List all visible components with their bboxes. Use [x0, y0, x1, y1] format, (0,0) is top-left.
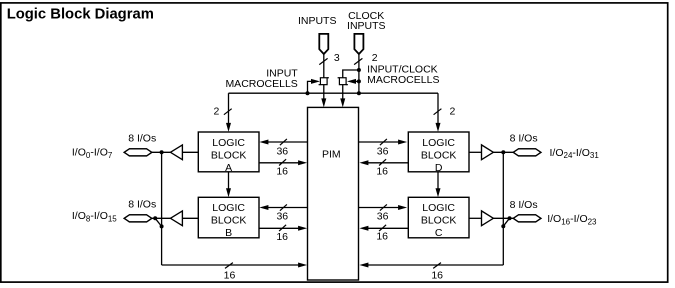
wire hexagon B to buffer: [151, 217, 170, 219]
buffer triangle A: [170, 145, 182, 160]
wire 2-bus into logic block A: [226, 93, 231, 132]
bus slash 16 A: [279, 159, 286, 165]
svg-text:2: 2: [450, 105, 456, 117]
svg-text:INPUTS: INPUTS: [347, 20, 386, 32]
wire right feedback vertical: [502, 152, 504, 265]
wire feedback bus horizontal: [229, 92, 439, 94]
wire clock pin down: [358, 54, 360, 94]
bus slash 36 B: [280, 204, 287, 210]
bus slash 16 bottom left: [225, 263, 233, 269]
node clock to feedback bus junction: [357, 91, 361, 95]
svg-text:B: B: [225, 227, 232, 239]
svg-text:PIM: PIM: [322, 149, 341, 161]
svg-text:8 I/Os: 8 I/Os: [128, 133, 156, 145]
wire 36-bus PIM to block D: [359, 140, 408, 145]
wire input macrocell to PIM: [321, 85, 326, 108]
bus slash 36 D: [380, 139, 387, 145]
node feedback C junction: [508, 216, 512, 220]
svg-text:BLOCK: BLOCK: [421, 149, 457, 161]
bus slash 16 C: [379, 225, 386, 231]
svg-text:8 I/Os: 8 I/Os: [510, 132, 538, 144]
buffer triangle C: [482, 211, 494, 226]
wire 16-bus block A to PIM: [259, 160, 307, 165]
node feedback D junction: [501, 150, 505, 154]
svg-text:16: 16: [431, 270, 443, 282]
wire 16-bus block C to PIM: [359, 226, 408, 231]
wire logic block A to B: [226, 172, 231, 197]
svg-text:36: 36: [377, 211, 389, 223]
bus slash 36 C: [380, 204, 387, 210]
wire 16-bus block B to PIM: [259, 226, 307, 231]
PIM box: [308, 107, 359, 280]
svg-text:8 I/Os: 8 I/Os: [510, 199, 538, 211]
io pin hexagon C: [513, 215, 541, 222]
svg-text:INPUTS: INPUTS: [298, 15, 337, 27]
label INPUT/CLOCK MACROCELLS: [367, 64, 439, 86]
wire left feedback jog diagonal: [155, 218, 161, 226]
bus slash 16 bottom right: [433, 263, 441, 269]
svg-text:16: 16: [376, 166, 388, 178]
label INPUT MACROCELLS: [225, 67, 298, 90]
wire input pin to input macrocell: [323, 54, 325, 78]
logic block B: [198, 197, 259, 239]
svg-text:16: 16: [276, 166, 288, 178]
io pin hexagon D: [513, 149, 541, 156]
svg-text:LOGIC: LOGIC: [212, 202, 245, 214]
node feedback A junction: [160, 150, 164, 154]
bus slash 2 right: [434, 109, 442, 115]
logic block D: [408, 132, 469, 174]
svg-text:D: D: [435, 162, 443, 174]
svg-text:MACROCELLS: MACROCELLS: [367, 74, 439, 86]
wire 36-bus PIM to block B: [259, 205, 307, 210]
wire 36-bus PIM to block C: [359, 205, 408, 210]
clock input pin symbol: [354, 34, 363, 54]
wire hexagon A to buffer: [151, 151, 170, 153]
logic block C: [408, 197, 469, 239]
svg-text:LOGIC: LOGIC: [422, 202, 455, 214]
bus slash 16 D: [379, 159, 386, 165]
bus slash 2 clock: [354, 58, 362, 64]
wire logic block D to C: [436, 172, 441, 197]
wire left feedback vertical: [161, 152, 163, 265]
bus slash 2 left: [224, 109, 232, 115]
bus slash 3: [319, 58, 327, 64]
logic block A: [198, 132, 259, 174]
svg-text:BLOCK: BLOCK: [421, 215, 457, 227]
wire 16-bus block D to PIM: [359, 160, 408, 165]
svg-text:36: 36: [276, 211, 288, 223]
svg-text:16: 16: [276, 231, 288, 243]
svg-text:2: 2: [213, 105, 219, 117]
node left jog junction: [160, 224, 164, 228]
svg-text:BLOCK: BLOCK: [211, 215, 247, 227]
wire buffer D to hexagon: [493, 151, 514, 153]
wire right feedback jog diagonal: [503, 218, 509, 226]
bus slash 16 B: [279, 225, 286, 231]
svg-text:16: 16: [376, 231, 388, 243]
svg-text:16: 16: [224, 270, 236, 282]
svg-text:MACROCELLS: MACROCELLS: [225, 78, 297, 90]
wire arrow into input macrocell: [308, 79, 321, 93]
svg-text:LOGIC: LOGIC: [212, 137, 245, 149]
bus slash 36 A: [280, 139, 287, 145]
svg-text:BLOCK: BLOCK: [211, 149, 247, 161]
svg-text:3: 3: [334, 52, 340, 64]
svg-text:Logic Block Diagram: Logic Block Diagram: [7, 7, 154, 23]
node clock arrow junction: [357, 79, 361, 83]
wire bottom 16-bus left to PIM: [162, 263, 308, 268]
node input macrocell feed junction: [306, 91, 310, 95]
input/clock macrocell IM2: [338, 78, 348, 85]
io pin hexagon A: [124, 149, 152, 156]
input pin symbol: [319, 34, 328, 54]
svg-text:36: 36: [276, 146, 288, 158]
svg-text:LOGIC: LOGIC: [422, 137, 455, 149]
wire bottom 16-bus right to PIM: [359, 263, 503, 268]
label CLOCK INPUTS: [347, 10, 386, 32]
node right jog junction: [501, 224, 505, 228]
svg-text:8 I/Os: 8 I/Os: [128, 199, 156, 211]
wire input/clock macrocell to PIM: [340, 85, 345, 108]
node feedback B junction: [153, 216, 157, 220]
wire buffer B to logic block B: [182, 217, 198, 219]
svg-text:2: 2: [372, 52, 378, 64]
wire buffer A to logic block A: [182, 151, 198, 153]
wire 2-bus into logic block D: [436, 93, 441, 132]
buffer triangle D: [482, 145, 494, 160]
wire 36-bus PIM to block A: [259, 140, 307, 145]
svg-text:36: 36: [377, 146, 389, 158]
svg-text:I/O0-I/O7: I/O0-I/O7: [72, 147, 113, 160]
buffer triangle B: [170, 211, 182, 226]
svg-text:C: C: [435, 227, 443, 239]
io pin hexagon B: [124, 215, 152, 222]
wire logic block D to buffer: [469, 151, 482, 153]
wire buffer C to hexagon: [493, 217, 514, 219]
input macrocell IM1: [319, 78, 329, 85]
wire clock branch to input/clock macrocell top: [343, 70, 359, 78]
wire logic block C to buffer: [469, 217, 482, 219]
wire arrow into input/clock macrocell: [351, 80, 359, 82]
node clock branch junction: [357, 68, 361, 72]
